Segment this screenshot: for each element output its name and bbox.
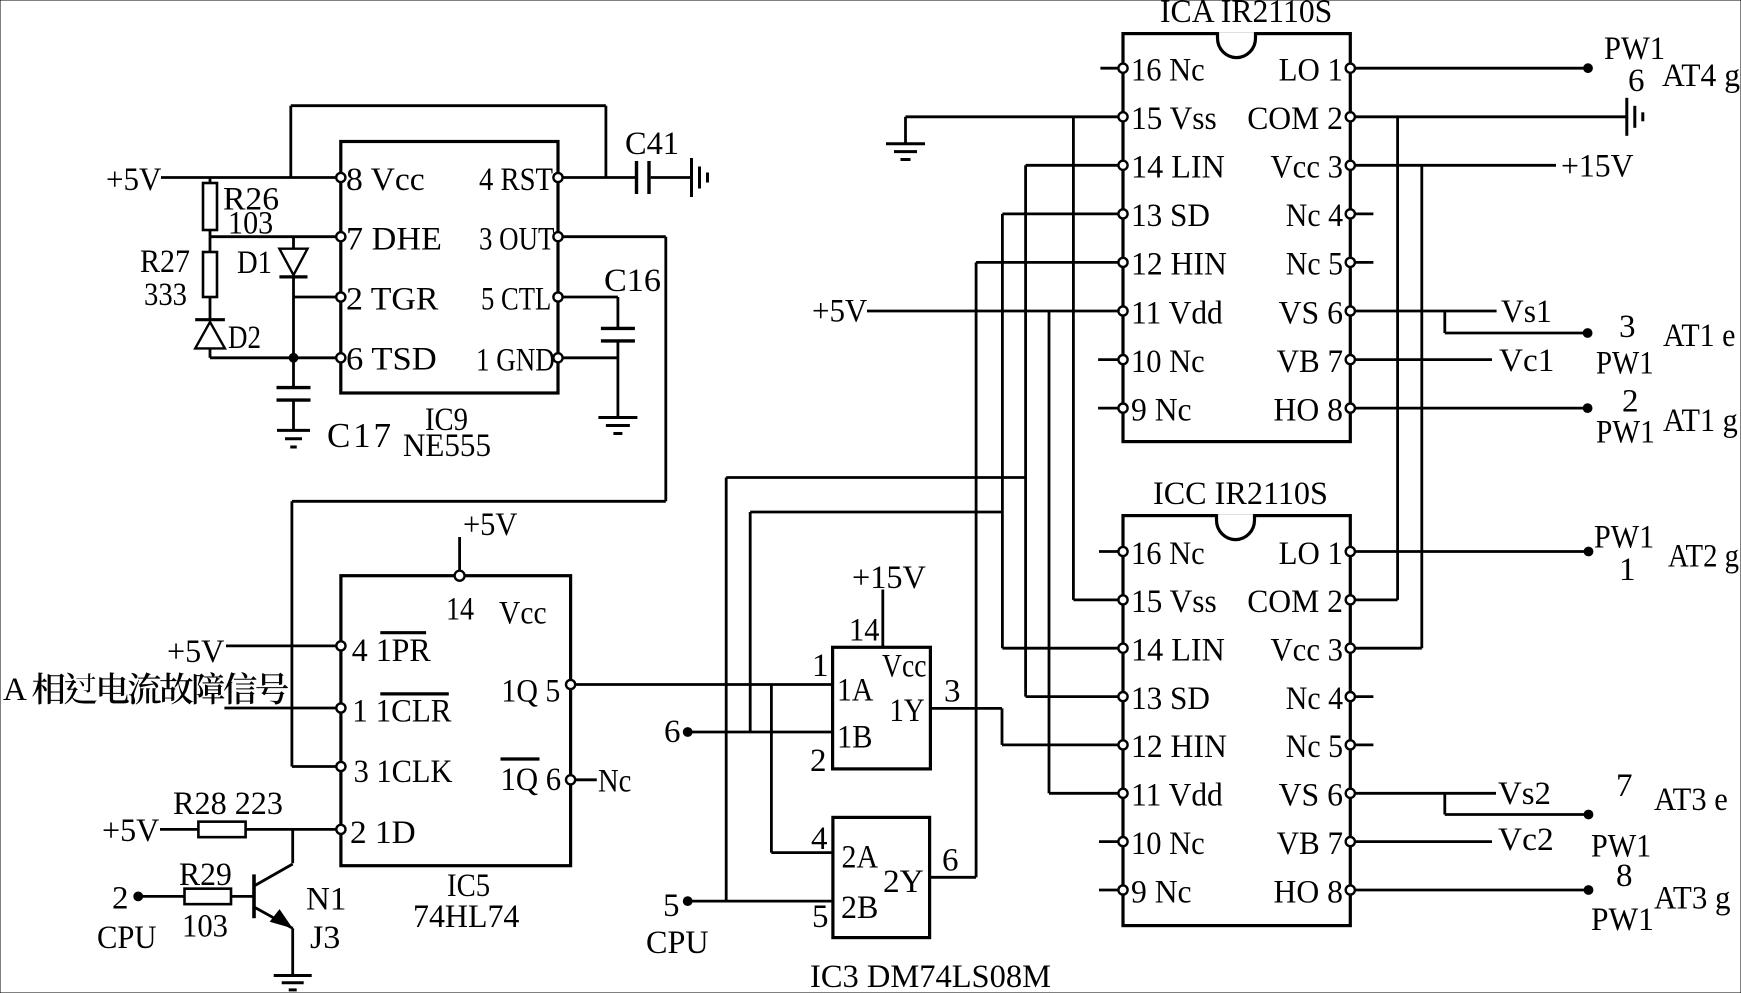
wire ICA HO8 AT1g [1355, 404, 1592, 413]
ICC right pin COM 2 [1247, 584, 1355, 620]
resistor R29 [143, 857, 232, 945]
svg-text:6: 6 [942, 843, 959, 879]
ICA Nc5 stub [1355, 261, 1373, 264]
svg-text:+15V: +15V [1561, 149, 1634, 185]
svg-text:PW1: PW1 [1596, 346, 1654, 382]
svg-text:1Q 5: 1Q 5 [501, 674, 560, 710]
ICC right pin Nc 4 [1286, 681, 1355, 717]
wire Vcc verticals [1355, 165, 1422, 648]
svg-text:333: 333 [144, 277, 187, 313]
ground (below C17) [277, 430, 310, 447]
op-amp ICA IR2110S box [1123, 0, 1350, 442]
wire 1A to 2A [771, 685, 833, 853]
svg-text:Vcc: Vcc [882, 649, 927, 685]
ICA left pin 12 HIN [1118, 247, 1227, 283]
wire ICA SD net (pin13 - ICC LIN - CPU6) [750, 214, 1123, 732]
diode D2 [195, 297, 261, 358]
svg-text:Nc: Nc [598, 764, 631, 800]
svg-text:1A: 1A [837, 673, 873, 709]
+15V supply label (IC3) [849, 560, 926, 649]
flip-flop IC5 74HL74 box [341, 576, 571, 935]
svg-text:Vcc: Vcc [499, 596, 547, 632]
ICC left pin 12 HIN [1118, 729, 1227, 765]
wire C41 to ground [651, 176, 692, 179]
svg-text:14: 14 [446, 592, 474, 628]
IC3 pin 1 label [812, 648, 829, 684]
svg-text:VS 6: VS 6 [1279, 295, 1343, 331]
ICC pin10 stub [1099, 840, 1119, 843]
op-amp ICC IR2110S box [1123, 476, 1350, 926]
capacitor C17 [277, 358, 392, 455]
IC9 pin 5 CTL [481, 281, 563, 317]
+5V supply label (R28) [102, 813, 159, 849]
wire +5V to 1PR [226, 645, 336, 648]
svg-text:CPU: CPU [646, 925, 709, 961]
label 7 AT3 e [1591, 768, 1728, 865]
svg-text:Nc 5: Nc 5 [1286, 247, 1343, 283]
svg-text:PW1: PW1 [1596, 415, 1655, 451]
svg-text:VS 6: VS 6 [1279, 778, 1343, 814]
svg-text:5 CTL: 5 CTL [481, 281, 551, 317]
ICA right pin VS 6 [1279, 295, 1355, 331]
svg-text:R29: R29 [179, 857, 232, 893]
node 6 CPU input [664, 714, 692, 750]
svg-text:1 1CLR: 1 1CLR [352, 694, 451, 730]
svg-text:Vcc 3: Vcc 3 [1271, 633, 1344, 669]
ICC left pin 15 Vss [1118, 584, 1216, 620]
resistor R27 [140, 237, 217, 313]
svg-text:+15V: +15V [852, 560, 926, 596]
svg-text:14: 14 [849, 613, 880, 649]
wire pin3 OUT to IC5 1CLK [292, 237, 666, 767]
svg-text:Vs2: Vs2 [1498, 776, 1551, 812]
svg-text:74HL74: 74HL74 [413, 899, 519, 935]
label 8 AT3 g [1591, 858, 1731, 938]
node 2 CPU input [97, 881, 157, 957]
svg-text:C16: C16 [604, 263, 661, 299]
svg-text:AT4 g: AT4 g [1662, 58, 1740, 94]
label 2 AT1 g [1596, 384, 1738, 451]
wire pin4 RST to C41 [563, 176, 636, 179]
wire to 1CLK [292, 765, 336, 768]
ICC left pin 13 SD [1118, 681, 1210, 717]
diode D1 [237, 237, 308, 297]
svg-text:3: 3 [944, 674, 961, 710]
IC3 pin 6 label [942, 843, 959, 879]
IC3 pin 2 label [810, 743, 827, 779]
svg-text:NE555: NE555 [403, 428, 491, 464]
wire +5V to R28 [160, 828, 198, 831]
svg-text:2 TGR: 2 TGR [346, 281, 438, 317]
svg-text:13 SD: 13 SD [1131, 198, 1210, 234]
ICC right pin VS 6 [1279, 778, 1355, 814]
wire 2Y to ICA HIN [930, 262, 1123, 877]
ICC left pin 10 Nc [1118, 826, 1204, 862]
wire 6 to 1B [688, 731, 833, 734]
svg-text:COM 2: COM 2 [1247, 584, 1343, 620]
svg-text:LO 1: LO 1 [1279, 53, 1343, 89]
svg-text:1: 1 [812, 648, 829, 684]
svg-text:D2: D2 [228, 320, 261, 356]
+5V supply label (NE555) [106, 162, 162, 198]
IC3 pin 3 label [944, 674, 961, 710]
node A: A-phase overcurrent fault signal text [3, 672, 288, 708]
svg-text:4 1PR: 4 1PR [352, 633, 431, 669]
ICA left pin 15 Vss [1118, 101, 1216, 137]
ICA left pin 13 SD [1118, 198, 1210, 234]
svg-text:12 HIN: 12 HIN [1131, 729, 1227, 765]
ICA right pin Nc 4 [1286, 198, 1355, 234]
svg-text:8: 8 [1616, 858, 1633, 894]
svg-text:+5V: +5V [812, 294, 867, 330]
IC9 pin 6 TSD [336, 342, 437, 378]
junction node TSD [289, 353, 298, 362]
svg-text:6 TSD: 6 TSD [346, 342, 437, 378]
svg-text:CPU: CPU [97, 920, 157, 956]
ICA pin16 stub [1100, 67, 1118, 70]
svg-text:J3: J3 [310, 920, 340, 956]
svg-text:+5V: +5V [167, 634, 225, 670]
svg-text:1B: 1B [837, 720, 873, 756]
wire pin1 GND to C16 [563, 356, 618, 359]
wire 5 to 2B [688, 900, 833, 903]
ICA pin10 stub [1098, 358, 1118, 361]
wire ICC VB7 Vc2 [1355, 822, 1554, 858]
IC9 pin 3 OUT [479, 222, 563, 258]
svg-text:HO 8: HO 8 [1274, 874, 1344, 910]
ground (right of C41) [692, 158, 708, 197]
wire pin6 TSD [210, 297, 336, 358]
ground (Vss) [886, 144, 925, 160]
wire COM verticals [1355, 117, 1398, 600]
svg-text:AT2 g: AT2 g [1668, 539, 1739, 575]
svg-text:LO 1: LO 1 [1279, 536, 1343, 572]
svg-text:ICC IR2110S: ICC IR2110S [1153, 476, 1328, 512]
ICA right pin LO 1 [1279, 53, 1355, 89]
IC5 pin 2 1D [336, 815, 415, 851]
svg-text:12 HIN: 12 HIN [1131, 247, 1227, 283]
wire R28 to 1D [246, 828, 337, 831]
svg-text:AT1 e: AT1 e [1663, 318, 1735, 354]
label 3 AT1 e [1596, 309, 1735, 382]
wire ICA Vcc3 to +15V [1355, 149, 1634, 185]
wire +5V to pin 8 Vcc [161, 176, 336, 179]
and-gate IC3 unit1 box [833, 647, 931, 769]
ICA left pin 9 Nc [1118, 392, 1191, 428]
svg-text:AT3 g: AT3 g [1654, 881, 1731, 917]
wire 1Q to 1A [575, 683, 832, 686]
svg-text:R28 223: R28 223 [173, 786, 283, 822]
ICC Nc4 stub [1355, 695, 1373, 698]
svg-text:IC3 DM74LS08M: IC3 DM74LS08M [810, 959, 1051, 993]
wire ICC LO1 to PW1-1 [1355, 547, 1593, 556]
svg-text:2 1D: 2 1D [350, 815, 416, 851]
svg-text:8 Vcc: 8 Vcc [346, 162, 425, 198]
IC5 pin 3 1CLK [336, 754, 452, 790]
+5V supply label (Vdd) [812, 294, 867, 330]
wire ICC HO8 AT3g [1355, 886, 1593, 895]
svg-text:1Q 6: 1Q 6 [501, 762, 562, 798]
svg-text:11 Vdd: 11 Vdd [1131, 778, 1223, 814]
ICC right pin VB 7 [1277, 826, 1355, 862]
IC5 pin 1 1CLR [336, 694, 451, 730]
svg-text:3 OUT: 3 OUT [479, 222, 554, 258]
svg-text:Vc2: Vc2 [1498, 822, 1554, 858]
svg-text:PW1: PW1 [1604, 31, 1665, 67]
svg-text:4 RST: 4 RST [479, 162, 553, 198]
svg-text:10 Nc: 10 Nc [1131, 344, 1205, 380]
svg-text:15 Vss: 15 Vss [1131, 584, 1217, 620]
svg-text:1: 1 [1619, 552, 1636, 588]
node 5 CPU input [646, 888, 709, 961]
resistor R28 [173, 786, 283, 837]
ICC pin9 stub [1099, 889, 1119, 892]
ground (below C16) [598, 418, 637, 434]
ICA right pin HO 8 [1274, 392, 1355, 428]
op-amp IC9 NE555 timer box [341, 142, 558, 465]
svg-text:Nc 4: Nc 4 [1286, 681, 1343, 717]
ICC right pin HO 8 [1274, 874, 1355, 910]
wire pin5 CTL to C16 [563, 296, 618, 299]
ICA left pin 16 Nc [1118, 53, 1204, 89]
svg-text:Nc 4: Nc 4 [1286, 198, 1343, 234]
svg-text:103: 103 [182, 909, 228, 945]
svg-text:14 LIN: 14 LIN [1131, 633, 1225, 669]
svg-text:14 LIN: 14 LIN [1131, 150, 1225, 186]
ICA right pin COM 2 [1247, 101, 1355, 137]
svg-text:VB 7: VB 7 [1277, 344, 1343, 380]
svg-text:Vcc 3: Vcc 3 [1271, 150, 1344, 186]
IC5 pin 4 1PR [336, 633, 430, 669]
IC3 label [810, 959, 1051, 993]
label PW1 AT2 [1594, 520, 1739, 589]
svg-text:Vc1: Vc1 [1499, 343, 1554, 379]
svg-text:AT1 g: AT1 g [1663, 403, 1738, 439]
IC9 pin 1 GND [476, 342, 563, 378]
svg-text:10 Nc: 10 Nc [1131, 826, 1205, 862]
ICA left pin 14 LIN [1118, 150, 1225, 186]
svg-text:2: 2 [810, 743, 827, 779]
wire +5V to Vdd pins [867, 311, 1123, 793]
svg-text:C17: C17 [327, 416, 391, 455]
svg-text:+5V: +5V [106, 162, 162, 198]
svg-text:N1: N1 [306, 882, 346, 918]
svg-text:5: 5 [663, 888, 680, 924]
wire ICA VB7 Vc1 [1355, 343, 1554, 379]
svg-text:3 1CLK: 3 1CLK [354, 754, 453, 790]
ground (COM2) [1627, 98, 1643, 136]
ICA pin9 stub [1098, 407, 1118, 410]
ICC left pin 14 LIN [1118, 633, 1225, 669]
svg-text:AT3 e: AT3 e [1654, 782, 1728, 818]
ICC left pin 16 Nc [1118, 536, 1204, 572]
svg-text:7 DHE: 7 DHE [346, 222, 442, 258]
ICC left pin 9 Nc [1118, 874, 1191, 910]
ICA left pin 11 Vdd [1118, 295, 1223, 331]
wire ICA LO1 to PW1-6 [1355, 64, 1592, 73]
wire R29 to base [231, 895, 254, 898]
svg-text:R27: R27 [140, 244, 190, 280]
svg-text:VB 7: VB 7 [1277, 826, 1343, 862]
svg-text:2A: 2A [842, 840, 879, 876]
ICA Nc4 stub [1355, 212, 1373, 215]
wire ICA COM2 to ground [1355, 115, 1627, 118]
+5V supply label (IC5 pin4) [167, 634, 225, 670]
wire pin2 TGR [294, 296, 337, 299]
svg-text:PW1: PW1 [1594, 520, 1654, 556]
wire ICC VS6 Vs2 [1355, 776, 1593, 819]
svg-text:C41: C41 [625, 126, 679, 162]
ICC right pin Vcc 3 [1271, 633, 1355, 669]
wire ICA LIN net (pin14 - ICC SD - CPU5) [726, 165, 1123, 901]
svg-text:11 Vdd: 11 Vdd [1131, 295, 1223, 331]
IC9 pin 4 RST [479, 162, 563, 198]
svg-text:+5V: +5V [102, 813, 159, 849]
ICC right pin LO 1 [1279, 536, 1355, 572]
ICA right pin Vcc 3 [1271, 150, 1355, 186]
wire loop pin8 to pin4 over IC9 [291, 106, 606, 178]
svg-text:3: 3 [1619, 309, 1636, 345]
svg-text:6: 6 [1628, 63, 1645, 99]
svg-text:13 SD: 13 SD [1131, 681, 1210, 717]
IC5 pin 6 1Q-bar [501, 759, 632, 800]
wire ICA VS6 Vs1 [1355, 294, 1592, 337]
svg-text:15 Vss: 15 Vss [1131, 101, 1217, 137]
svg-text:COM 2: COM 2 [1247, 101, 1343, 137]
wire Vss net to ground [906, 117, 1124, 600]
IC3 pin 5 label [812, 899, 829, 935]
svg-text:1 GND: 1 GND [476, 342, 555, 378]
capacitor C41 [625, 126, 679, 194]
wire 1Y to ICC HIN [930, 708, 1123, 745]
ICC Nc5 stub [1355, 744, 1373, 747]
IC5 pin 14 Vcc [446, 507, 547, 632]
svg-text:2Y: 2Y [883, 864, 924, 900]
svg-text:16 Nc: 16 Nc [1131, 536, 1205, 572]
label PW1 AT4 [1604, 31, 1740, 99]
ICA left pin 10 Nc [1118, 344, 1204, 380]
resistor R26 [203, 178, 279, 242]
svg-text:2B: 2B [841, 890, 878, 926]
svg-text:6: 6 [664, 714, 681, 750]
wire fault signal to 1CLR [224, 707, 336, 710]
ICC left pin 11 Vdd [1118, 778, 1223, 814]
capacitor C16 [601, 263, 661, 418]
svg-text:ICA IR2110S: ICA IR2110S [1160, 0, 1332, 30]
svg-text:A: A [3, 672, 27, 708]
IC3 pin 4 label [811, 821, 828, 857]
IC9 pin 8 Vcc [336, 162, 425, 198]
wire pin7 DHE [210, 235, 336, 238]
svg-text:D1: D1 [237, 245, 272, 281]
ICC right pin Nc 5 [1286, 729, 1355, 765]
transistor N1 J3 [254, 829, 346, 975]
svg-text:9 Nc: 9 Nc [1131, 392, 1192, 428]
svg-text:+5V: +5V [463, 507, 518, 543]
IC9 pin 2 TGR [336, 281, 438, 317]
ICA right pin Nc 5 [1286, 247, 1355, 283]
svg-text:Vs1: Vs1 [1501, 294, 1552, 330]
svg-text:1Y: 1Y [890, 693, 925, 729]
svg-text:5: 5 [812, 899, 829, 935]
svg-text:2: 2 [112, 881, 129, 917]
ground (below N1) [274, 976, 312, 990]
svg-text:HO 8: HO 8 [1274, 392, 1344, 428]
svg-text:PW1: PW1 [1591, 902, 1654, 938]
IC5 pin 5 1Q [501, 674, 575, 710]
ICA right pin VB 7 [1277, 344, 1355, 380]
IC9 pin 7 DHE [336, 222, 442, 258]
svg-text:9 Nc: 9 Nc [1131, 874, 1192, 910]
svg-text:7: 7 [1616, 768, 1633, 804]
and-gate IC3 unit2 box [833, 817, 930, 937]
ICC pin16 stub [1099, 550, 1119, 553]
svg-text:16 Nc: 16 Nc [1131, 53, 1205, 89]
svg-text:Nc 5: Nc 5 [1286, 729, 1343, 765]
